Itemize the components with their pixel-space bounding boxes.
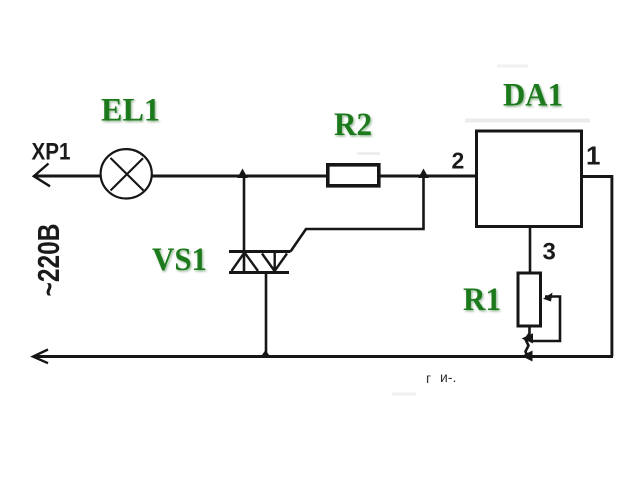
svg-text:2: 2 [452, 148, 465, 174]
junction node B arrow [418, 169, 428, 179]
wire bottom AC line [34, 355, 613, 358]
wire pin1 to right rail [581, 177, 612, 357]
triac left triangle [232, 253, 259, 272]
svg-text:~220B: ~220B [31, 224, 66, 297]
junction dot triac-bottom [261, 350, 270, 357]
junction arrow wiper-lead [522, 333, 534, 343]
junction node A arrow [237, 169, 247, 179]
op-amp box DA1 [477, 131, 582, 227]
svg-text:R2: R2 [334, 107, 372, 143]
triac right triangle [262, 253, 287, 271]
resistor R2 [328, 165, 379, 186]
svg-text:3: 3 [543, 239, 556, 266]
triac VS1 top bar [229, 250, 291, 253]
wire main top AC line [34, 175, 477, 178]
lamp EL1 [101, 149, 152, 198]
svg-text:и-.: и-. [440, 369, 456, 385]
artifact ghost above R2 [357, 152, 380, 155]
wire triac bottom lead [265, 273, 268, 356]
svg-text:R1: R1 [463, 282, 501, 318]
triac VS1 bottom bar [229, 271, 289, 274]
svg-text:г: г [426, 370, 431, 386]
R1 wiper arrowhead [543, 293, 553, 302]
svg-text:XP1: XP1 [32, 139, 71, 166]
artifact ghost above DA1 [497, 65, 528, 68]
svg-text:1: 1 [586, 141, 600, 171]
wire node A down to triac [243, 176, 246, 272]
wire R1 wiper return [533, 297, 560, 342]
wire pin 3 lead [529, 228, 532, 273]
svg-text:EL1: EL1 [101, 93, 160, 129]
wire triac gate [291, 177, 424, 252]
arrow left bottom [33, 350, 48, 364]
arrow left top (XP1 plug) [34, 164, 50, 187]
wire R1 bottom lead zigzag [526, 327, 530, 357]
svg-text:DA1: DA1 [503, 78, 563, 114]
artifact faint smear lower [392, 393, 416, 396]
resistor R1 (variable) [518, 273, 541, 326]
svg-text:VS1: VS1 [152, 242, 207, 278]
artifact ghost line under DA1 [465, 119, 590, 123]
junction arrow lead-bottom-wire [522, 351, 533, 362]
